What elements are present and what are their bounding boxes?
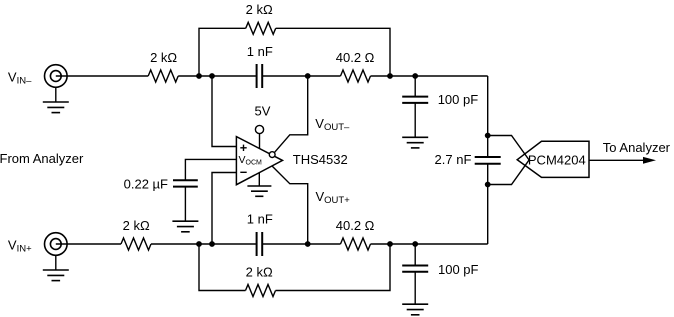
capacitor 0.22uF: [173, 180, 198, 186]
junction (bottom row, VOUT+ tap): [305, 241, 311, 247]
wire: [178, 75, 256, 77]
wire (to PCM4204 lower, crossing): [488, 160, 530, 185]
wire: [263, 243, 341, 245]
wire: [56, 75, 148, 77]
svg-text:2.7 nF: 2.7 nF: [435, 152, 472, 167]
wire (+ input): [212, 76, 236, 147]
junction (right bus, 2.7nF bottom / ADC lower input): [485, 182, 491, 188]
svg-text:2 kΩ: 2 kΩ: [246, 265, 273, 280]
op-amp - pin mark: [240, 171, 246, 173]
junction (bottom row, feedback return): [387, 241, 393, 247]
wire (right bus down to 2.7nF top): [487, 76, 489, 157]
wire (VOCM): [185, 159, 236, 180]
junction (bottom row, feedback tap): [196, 241, 202, 247]
svg-text:0.22 µF: 0.22 µF: [124, 177, 168, 192]
capacitor 1nF top: [257, 64, 263, 88]
junction (bottom row, -input tap): [209, 241, 215, 247]
svg-text:From Analyzer: From Analyzer: [0, 151, 84, 166]
ground (under 100pF bottom): [402, 304, 428, 315]
svg-text:1 nF: 1 nF: [247, 44, 273, 59]
svg-text:5V: 5V: [255, 104, 271, 119]
resistor 2k bottom feedback: [246, 285, 276, 297]
resistor 2k top input: [148, 70, 178, 82]
junction (top row, VOUT- tap): [305, 73, 311, 79]
capacitor 100pF top: [402, 76, 428, 137]
svg-text:40.2 Ω: 40.2 Ω: [336, 50, 375, 65]
connector J1 (VIN-): [45, 65, 68, 102]
wire: [276, 244, 391, 291]
svg-text:2 kΩ: 2 kΩ: [246, 2, 273, 17]
wire: [184, 187, 186, 222]
resistor 2k top feedback: [246, 22, 276, 34]
op-amp U1 THS4532 triangle: [236, 137, 282, 185]
resistor 40.2 top: [341, 70, 371, 82]
junction (right bus, 2.7nF top / ADC upper input): [485, 133, 491, 139]
wire (bottom feedback loop): [199, 244, 246, 291]
svg-text:THS4532: THS4532: [293, 152, 348, 167]
wire (right bus up to 2.7nF bottom): [487, 164, 489, 244]
resistor 40.2 bottom: [341, 238, 371, 250]
ground (under 0.22uF): [172, 221, 198, 232]
wire: [263, 75, 341, 77]
junction (bottom row, 100pF tap): [412, 241, 418, 247]
wire: [371, 75, 488, 77]
junction (top row, feedback return): [387, 73, 393, 79]
wire: [371, 243, 488, 245]
svg-text:To Analyzer: To Analyzer: [603, 140, 671, 155]
output bubble: [269, 152, 275, 158]
wire: [276, 28, 390, 76]
ground (under VIN- connector): [43, 102, 69, 113]
svg-text:2 kΩ: 2 kΩ: [123, 218, 150, 233]
wire: [151, 243, 256, 245]
junction (top row, +input tap): [209, 73, 215, 79]
svg-text:1 nF: 1 nF: [247, 212, 273, 227]
ground (under 100pF top): [402, 137, 428, 148]
ADC U2 PCM4204: [517, 141, 589, 177]
ground (under op-amp): [247, 173, 271, 197]
wire (output arrow): [589, 159, 646, 161]
connector J2 (VIN+): [45, 233, 68, 270]
svg-text:100 pF: 100 pF: [438, 262, 479, 277]
svg-text:40.2 Ω: 40.2 Ω: [336, 218, 375, 233]
capacitor 2.7nF: [475, 157, 501, 164]
ground (under VIN+ connector): [43, 270, 69, 281]
junction (top row, feedback tap): [196, 73, 202, 79]
5V supply circle: [255, 125, 263, 148]
capacitor 100pF bottom: [402, 244, 428, 304]
junction (top row, 100pF tap): [412, 73, 418, 79]
svg-text:PCM4204: PCM4204: [528, 153, 586, 168]
svg-text:2 kΩ: 2 kΩ: [150, 50, 177, 65]
wire: [56, 243, 121, 245]
wire (- input): [212, 173, 236, 245]
wire (to PCM4204 upper, crossing): [488, 136, 530, 161]
wire (top feedback loop): [199, 28, 246, 76]
wire (VOUT- from bubble to top row): [275, 76, 308, 152]
op-amp + pin mark: [240, 145, 246, 151]
wire (VOUT+ to bottom row): [272, 166, 307, 244]
svg-text:100 pF: 100 pF: [438, 92, 479, 107]
resistor 2k bottom input: [121, 238, 151, 250]
capacitor 1nF bottom: [257, 232, 263, 256]
